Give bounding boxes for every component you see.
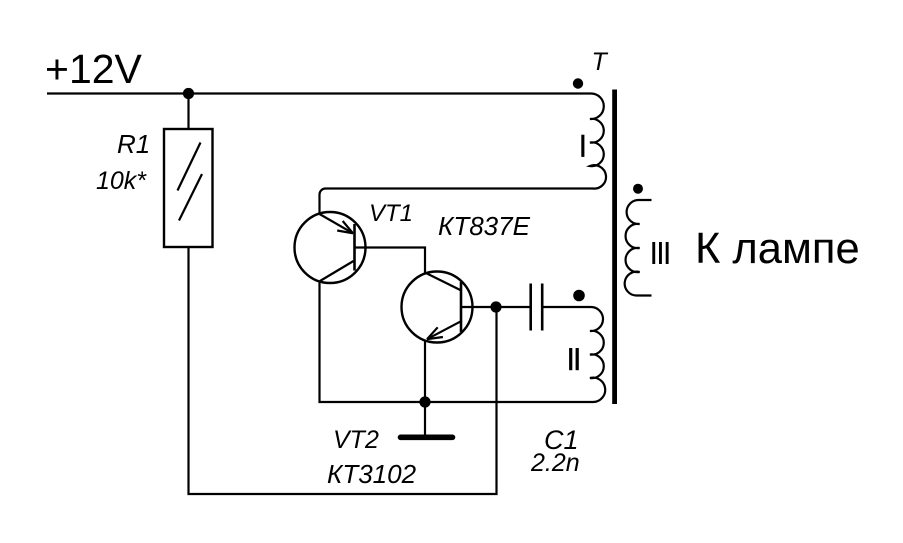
transistor VT1 emitter diagonal with arrow into base <box>320 214 354 233</box>
capacitor C1 plates <box>529 284 532 331</box>
transformer phasing dot winding II <box>573 290 585 302</box>
ground <box>424 402 426 435</box>
svg-text:VT2: VT2 <box>333 426 379 454</box>
svg-text:КТ837Е: КТ837Е <box>438 211 531 241</box>
svg-text:R1: R1 <box>117 129 150 159</box>
node junction dot ground / VT2 emitter <box>419 396 430 407</box>
transistor VT2 base bar <box>460 282 463 332</box>
wire +12V rail into transformer winding I and down to VT1 emitter <box>47 93 606 213</box>
transformer phasing dot winding I <box>573 78 583 88</box>
transistor VT1 (PNP KT837E) circle <box>295 212 366 283</box>
wire VT1 base to VT2 collector <box>355 248 426 274</box>
label II (winding II) <box>569 348 572 370</box>
transformer winding III <box>625 200 652 296</box>
transistor VT1 collector diagonal <box>320 261 354 281</box>
wire VT2 base to C1 left plate with junction <box>461 306 530 308</box>
resistor R1 <box>164 129 213 247</box>
transformer T core <box>612 90 617 405</box>
svg-text:К лампе: К лампе <box>695 225 860 273</box>
wire VT2 emitter lead down to rail <box>424 340 426 402</box>
svg-text:10k*: 10k* <box>96 167 147 195</box>
node junction dot VT2 base / C1 / feedback <box>490 301 501 312</box>
transistor VT1 base bar <box>353 224 356 271</box>
transistor VT2 collector diagonal <box>426 273 461 290</box>
svg-text:2.2n: 2.2n <box>530 449 580 477</box>
wire R1 bottom to bottom rail to C1 junction <box>189 247 497 494</box>
transistor VT2 (NPN KT3102) circle <box>402 272 473 343</box>
label I (winding I) <box>581 135 584 157</box>
transformer phasing dot winding III <box>633 184 643 194</box>
label III (winding III) <box>652 242 655 264</box>
svg-text:КТ3102: КТ3102 <box>327 459 417 489</box>
wire R1 top stub <box>187 94 189 130</box>
svg-text:T: T <box>592 48 609 76</box>
node junction dot at R1 top on +12V rail <box>183 88 194 99</box>
svg-text:VT1: VT1 <box>369 200 413 227</box>
transistor VT2 emitter diagonal with arrow <box>427 321 462 339</box>
wire C1 right plate into winding II, bottom rail to VT1 collector <box>320 281 606 402</box>
svg-text:+12V: +12V <box>45 46 143 92</box>
